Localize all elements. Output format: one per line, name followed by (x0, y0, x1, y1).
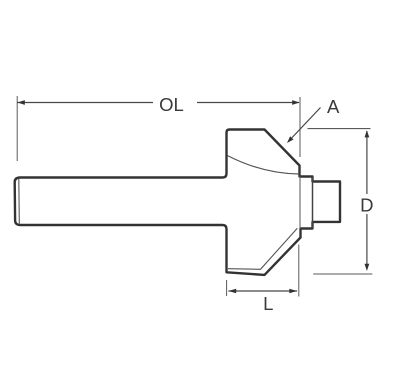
svg-text:A: A (327, 96, 340, 117)
dimension D extension line top (308, 128, 371, 130)
dimension L arrow right (289, 289, 297, 294)
svg-text:L: L (263, 293, 273, 314)
pilot left edge across collar (312, 177, 314, 229)
flute curve (227, 156, 299, 175)
dimension D arrow bottom (365, 264, 370, 271)
dimension OL arrow left (18, 100, 25, 105)
dimension OL line right segment (197, 102, 299, 104)
dimension OL line left segment (18, 102, 154, 104)
dimension L extension line left (226, 280, 228, 296)
dimension D arrow top (365, 130, 370, 137)
dimension OL extension line left (16, 96, 18, 161)
dimension L arrow left (228, 289, 236, 294)
shank end chamfer line (18, 179, 21, 224)
dimension D line upper segment (366, 131, 368, 194)
dimension OL extension line right (299, 97, 301, 157)
svg-text:OL: OL (159, 94, 184, 115)
bottom cutting edge inner line (228, 228, 297, 269)
dimension D extension line bottom (313, 273, 372, 275)
dimension L line (228, 290, 297, 292)
svg-text:D: D (360, 194, 373, 215)
head right face edge across collar (299, 177, 301, 229)
dimension L extension line right (298, 245, 300, 297)
dimension D line lower segment (366, 214, 368, 270)
shank and cutter body outline (15, 130, 340, 275)
angle leader arrowhead (287, 136, 294, 143)
angle leader line (292, 108, 321, 138)
dimension OL arrow right (292, 100, 299, 105)
